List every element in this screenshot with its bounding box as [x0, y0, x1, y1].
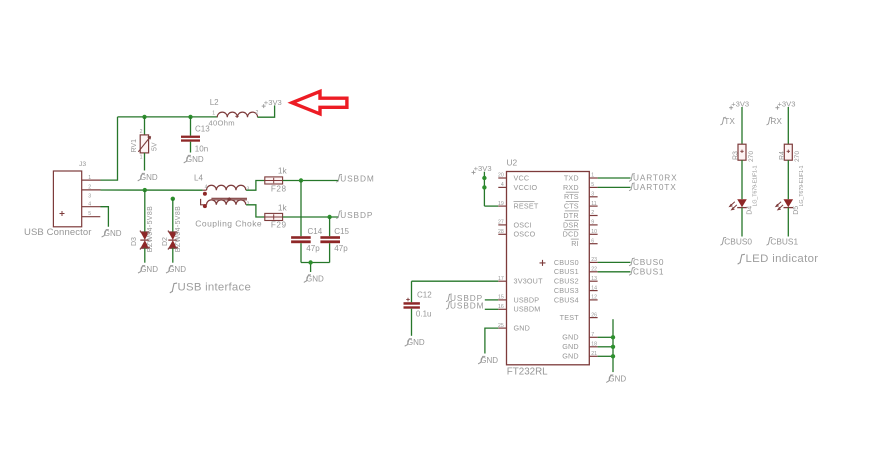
wire vbus rail	[118, 116, 218, 118]
wire TXD	[598, 177, 631, 179]
ground U2 right	[606, 375, 626, 384]
net label RX	[767, 116, 783, 126]
net label USBDP	[336, 210, 373, 220]
svg-text:GND: GND	[186, 155, 204, 164]
wire 3v3out	[412, 280, 499, 282]
wire R4 to D5	[787, 160, 789, 199]
svg-text:USBDM: USBDM	[340, 173, 374, 183]
LED D4	[730, 199, 754, 215]
svg-text:7: 7	[591, 332, 594, 338]
ground D3	[138, 265, 158, 274]
net label USBDP chip	[446, 293, 498, 303]
supply +3V3 at L2	[262, 98, 282, 108]
svg-text:14: 14	[591, 285, 597, 291]
wire C12 top	[411, 281, 413, 302]
ground U2 left	[478, 356, 498, 365]
svg-text:GND: GND	[480, 356, 498, 365]
svg-text:D4: D4	[747, 206, 754, 215]
gnd usb pin4 wire	[101, 207, 109, 227]
junction gnd7	[611, 335, 615, 339]
svg-text:CBUS3: CBUS3	[554, 286, 579, 295]
wire RV1 top	[144, 117, 146, 135]
svg-text:D2: D2	[162, 237, 169, 246]
svg-text:10n: 10n	[195, 145, 208, 154]
junction C14	[299, 178, 303, 182]
svg-text:UART0TX: UART0TX	[633, 182, 677, 192]
svg-text:OSCI: OSCI	[514, 220, 532, 229]
svg-text:USB interface: USB interface	[178, 282, 252, 294]
svg-text:RV1: RV1	[131, 139, 138, 153]
svg-text:TXD: TXD	[564, 173, 579, 182]
wire D3 top	[144, 190, 146, 232]
svg-text:RTS: RTS	[564, 192, 579, 201]
wire RV1 bottom	[144, 153, 146, 171]
svg-text:TEST: TEST	[560, 313, 580, 322]
supply +3V3 at R4	[775, 99, 795, 109]
ground C12	[405, 338, 425, 347]
U2 right pins	[554, 173, 598, 361]
wire D2 top	[172, 199, 174, 232]
svg-text:15: 15	[498, 295, 504, 301]
wire vbus vertical	[117, 117, 119, 181]
U2 origin cross	[540, 260, 546, 266]
svg-text:CBUS1: CBUS1	[770, 236, 798, 246]
net label UART0TX	[629, 182, 677, 192]
label USB interface	[170, 282, 251, 294]
svg-text:+3V3: +3V3	[264, 98, 282, 107]
wire C13 top	[190, 117, 192, 136]
USB connector pin stubs	[82, 180, 101, 217]
diode D2 TVS	[162, 206, 182, 252]
svg-text:RXD: RXD	[563, 183, 579, 192]
wire L4 pin2 to F29	[246, 205, 265, 217]
svg-text:RESET: RESET	[514, 202, 539, 211]
svg-text:GND: GND	[562, 342, 579, 351]
svg-text:4: 4	[88, 201, 91, 207]
svg-text:10: 10	[591, 229, 597, 235]
svg-text:1: 1	[88, 175, 91, 181]
wire caps gnd link	[301, 263, 330, 273]
svg-text:R3: R3	[733, 151, 740, 160]
svg-text:D3: D3	[131, 237, 138, 246]
label Coupling Choke	[195, 219, 262, 229]
supply +3V3 at R3	[729, 99, 749, 109]
wire CBUS1	[598, 271, 631, 273]
svg-text:1: 1	[212, 111, 215, 117]
wire C12 bottom	[411, 309, 413, 336]
inductor L4 coupling choke	[194, 173, 249, 208]
svg-text:27: 27	[498, 220, 504, 226]
svg-text:LG_T679-E1lF1-1: LG_T679-E1lF1-1	[753, 165, 759, 206]
svg-text:4: 4	[501, 182, 504, 188]
fuse F29	[265, 203, 288, 230]
wire CBUS0	[598, 261, 631, 263]
resistor R4	[779, 144, 805, 206]
svg-text:RX: RX	[770, 116, 782, 126]
fuse F28	[265, 165, 288, 193]
svg-text:USBDM: USBDM	[450, 301, 484, 311]
svg-text:16: 16	[498, 304, 504, 310]
junction vccio	[482, 185, 486, 189]
svg-text:1: 1	[591, 173, 594, 179]
svg-text:2: 2	[88, 185, 91, 191]
svg-text:5: 5	[591, 182, 594, 188]
red arrow annotation	[292, 91, 347, 114]
ground C14 C15	[304, 274, 324, 283]
svg-text:OSCO: OSCO	[514, 230, 536, 239]
svg-text:GND: GND	[168, 265, 186, 274]
svg-text:5: 5	[88, 211, 91, 217]
svg-text:BZW04-5V8B: BZW04-5V8B	[147, 206, 154, 252]
svg-text:2: 2	[256, 110, 259, 116]
svg-text:12: 12	[591, 295, 597, 301]
wire RXD	[598, 186, 631, 188]
USB connector pin numbers	[88, 175, 91, 217]
svg-text:TX: TX	[724, 116, 735, 126]
junction gnd21	[611, 354, 615, 358]
label LED indicator	[738, 253, 819, 265]
wire C13 bottom	[190, 142, 192, 153]
svg-text:CTS: CTS	[564, 202, 579, 211]
svg-text:0.1u: 0.1u	[416, 310, 432, 319]
svg-text:GND: GND	[562, 333, 579, 342]
svg-text:3V3OUT: 3V3OUT	[514, 277, 544, 286]
svg-text:+3V3: +3V3	[474, 164, 492, 173]
wire D2 bottom	[172, 248, 174, 263]
junction vcc	[482, 176, 486, 180]
svg-text:2: 2	[591, 210, 594, 216]
svg-text:GND: GND	[562, 352, 579, 361]
junction caps gnd	[308, 260, 312, 264]
wire R3 to D4	[741, 160, 743, 199]
svg-text:18: 18	[591, 342, 597, 348]
svg-text:GND: GND	[407, 338, 425, 347]
USB connector J3 body	[53, 161, 86, 227]
svg-text:22: 22	[591, 267, 597, 273]
junction rail-C13	[188, 115, 192, 119]
svg-text:CBUS2: CBUS2	[554, 277, 579, 286]
junction C15	[327, 215, 331, 219]
svg-text:17: 17	[498, 276, 504, 282]
capacitor C14	[291, 227, 323, 253]
resistor R3	[733, 144, 759, 206]
svg-text:CBUS4: CBUS4	[554, 295, 579, 304]
svg-text:3: 3	[246, 186, 249, 192]
svg-text:20: 20	[498, 173, 504, 179]
varistor RV1	[131, 129, 159, 160]
junction rail-RV1	[142, 115, 146, 119]
capacitor C15	[320, 227, 349, 253]
wire F28 out USBDM	[283, 180, 338, 182]
inductor L2	[209, 98, 259, 127]
svg-text:CBUS0: CBUS0	[724, 236, 752, 246]
svg-text:J3: J3	[79, 161, 86, 168]
net label USBDM	[336, 173, 374, 183]
wire vbus from pin1	[101, 179, 118, 181]
wire C15 bottom	[329, 243, 331, 262]
svg-text:CBUS0: CBUS0	[554, 258, 579, 267]
svg-text:270: 270	[794, 151, 801, 162]
svg-text:DTR: DTR	[563, 211, 578, 220]
svg-text:CBUS1: CBUS1	[554, 267, 579, 276]
svg-text:21: 21	[591, 351, 597, 357]
svg-text:LG_T679-E1lF1-1: LG_T679-E1lF1-1	[799, 165, 805, 206]
svg-text:GND: GND	[104, 229, 122, 238]
junction D3	[143, 188, 147, 192]
svg-text:RI: RI	[571, 239, 579, 248]
wire D5 bottom	[787, 208, 789, 237]
label USB Connector	[24, 227, 92, 238]
svg-text:26: 26	[591, 312, 597, 318]
ground D2	[166, 265, 186, 274]
ground C13	[184, 155, 204, 164]
svg-text:13: 13	[591, 276, 597, 282]
svg-text:C14: C14	[308, 227, 323, 236]
svg-text:C15: C15	[334, 227, 349, 236]
svg-text:2: 2	[140, 129, 143, 135]
wire C14 top	[300, 181, 302, 237]
wire gnd7	[598, 336, 613, 338]
wire D3 bottom	[144, 248, 146, 263]
wire gnd18	[598, 346, 613, 348]
net label CBUS1 led	[767, 236, 799, 246]
wire 3v3 chip	[484, 172, 498, 206]
svg-text:F29: F29	[271, 221, 287, 230]
svg-text:DSR: DSR	[563, 220, 579, 229]
U2 left pins	[498, 173, 543, 333]
svg-text:28: 28	[498, 229, 504, 235]
svg-text:3: 3	[591, 192, 594, 198]
wire C14 bottom	[300, 243, 302, 262]
net label CBUS1	[629, 267, 664, 277]
diode D3 TVS	[131, 206, 154, 252]
junction D2	[171, 197, 175, 201]
svg-text:25: 25	[498, 323, 504, 329]
svg-text:9: 9	[591, 220, 594, 226]
wire C15 top	[329, 217, 331, 236]
net label TX	[720, 116, 735, 126]
svg-text:CBUS1: CBUS1	[633, 267, 664, 277]
wire F29 out USBDP	[283, 216, 338, 218]
ground RV1	[138, 173, 158, 182]
svg-text:U2: U2	[507, 158, 518, 168]
svg-text:6: 6	[591, 238, 594, 244]
svg-text:GND: GND	[608, 375, 626, 384]
svg-text:+3V3: +3V3	[731, 99, 749, 108]
svg-text:19: 19	[498, 201, 504, 207]
LED D5	[776, 199, 800, 215]
svg-text:VCCIO: VCCIO	[514, 183, 538, 192]
net label CBUS0	[629, 257, 664, 267]
svg-text:4: 4	[205, 185, 208, 191]
net label CBUS0 led	[720, 236, 752, 246]
svg-text:USBDM: USBDM	[514, 305, 541, 314]
svg-text:USBDP: USBDP	[340, 210, 373, 220]
svg-text:Coupling Choke: Coupling Choke	[195, 219, 262, 229]
svg-text:USB Connector: USB Connector	[24, 227, 92, 238]
svg-text:GND: GND	[306, 274, 324, 283]
capacitor C13	[181, 124, 210, 153]
wire D4 bottom	[741, 208, 743, 237]
svg-text:23: 23	[591, 257, 597, 263]
wire L4 pin3 to F28	[246, 181, 265, 191]
op-amp U2 FT232RL body	[507, 158, 590, 378]
svg-text:47p: 47p	[306, 244, 320, 253]
svg-text:GND: GND	[514, 324, 531, 333]
svg-text:BZW04-5V8B: BZW04-5V8B	[175, 206, 182, 252]
svg-text:GND: GND	[140, 173, 158, 182]
svg-text:VCC: VCC	[514, 173, 530, 182]
svg-text:47p: 47p	[334, 244, 348, 253]
svg-text:1k: 1k	[278, 165, 288, 175]
svg-text:USBDP: USBDP	[514, 295, 540, 304]
svg-text:1k: 1k	[278, 203, 288, 213]
svg-text:C12: C12	[417, 291, 432, 300]
svg-text:LED indicator: LED indicator	[746, 253, 819, 265]
net label UART0RX	[629, 173, 677, 183]
svg-text:L2: L2	[210, 98, 219, 107]
svg-text:D5: D5	[793, 206, 800, 215]
svg-text:3: 3	[88, 194, 91, 200]
net label USBDM chip	[446, 301, 498, 311]
wire gnd21	[598, 355, 613, 357]
supply +3V3 at U2	[472, 164, 492, 174]
wire R3 top	[741, 107, 743, 144]
wire gnd25	[485, 328, 498, 353]
svg-text:270: 270	[748, 151, 755, 162]
junction gnd18	[611, 345, 615, 349]
wire usb pin2	[101, 189, 203, 191]
svg-text:F28: F28	[271, 184, 287, 193]
wire L2 to 3V3	[258, 105, 275, 117]
capacitor C12	[404, 291, 433, 319]
wire test gnd	[612, 319, 614, 372]
ground usb	[102, 229, 122, 238]
svg-text:5V: 5V	[151, 142, 158, 151]
svg-text:11: 11	[591, 201, 596, 207]
svg-text:R4: R4	[779, 151, 786, 160]
svg-text:FT232RL: FT232RL	[507, 367, 548, 378]
svg-text:L4: L4	[194, 173, 203, 182]
wire R4 top	[787, 107, 789, 144]
svg-text:1: 1	[140, 155, 143, 161]
svg-text:DCD: DCD	[563, 230, 579, 239]
svg-text:GND: GND	[140, 265, 158, 274]
svg-text:40Ohm: 40Ohm	[209, 118, 235, 127]
svg-text:+3V3: +3V3	[778, 99, 796, 108]
